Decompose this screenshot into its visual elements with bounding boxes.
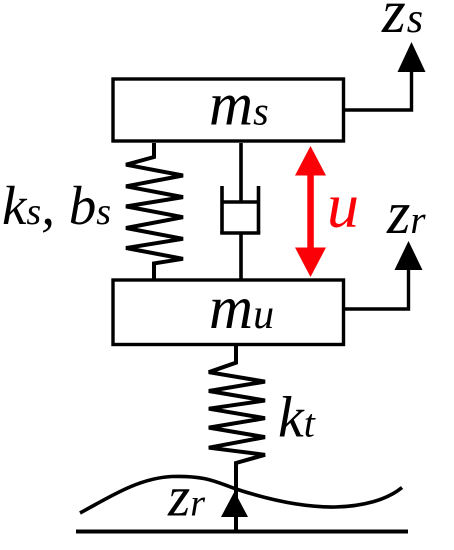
svg-text:u: u	[327, 170, 359, 241]
svg-text:ks, bs: ks, bs	[2, 175, 111, 236]
svg-text:zs: zs	[381, 0, 423, 46]
